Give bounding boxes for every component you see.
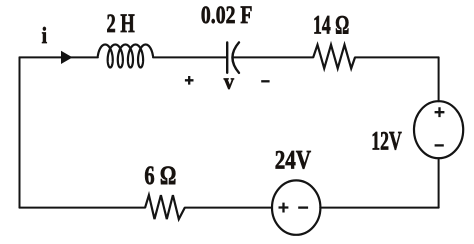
svg-text:0.02 F: 0.02 F [201, 1, 253, 29]
svg-text:v: v [224, 69, 234, 94]
svg-text:24V: 24V [275, 147, 311, 176]
svg-text:12V: 12V [371, 126, 401, 155]
svg-text:6 Ω: 6 Ω [144, 162, 176, 191]
svg-text:i: i [42, 22, 47, 48]
svg-text:2 H: 2 H [107, 9, 136, 38]
svg-text:14 Ω: 14 Ω [313, 10, 349, 39]
